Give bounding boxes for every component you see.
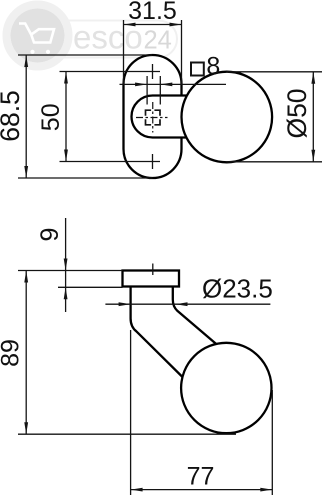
dimension 31.5 extension lines <box>123 20 125 84</box>
top screw hole cross <box>145 64 160 79</box>
spindle hole centerlines <box>136 117 168 119</box>
svg-text:24: 24 <box>144 27 172 55</box>
extension line 50 top <box>60 71 146 73</box>
side view ball <box>181 343 271 433</box>
dimension 89 line <box>25 271 27 435</box>
dimension 77 extension lines <box>130 330 132 495</box>
dimension 9 extension lines <box>18 270 123 272</box>
watermark ring <box>7 5 69 67</box>
neck projection (top view) <box>132 96 191 138</box>
svg-text:68.5: 68.5 <box>0 90 25 142</box>
svg-text:Ø50: Ø50 <box>282 88 312 138</box>
svg-text:50: 50 <box>37 103 65 131</box>
side view neck <box>131 287 218 378</box>
svg-text:31.5: 31.5 <box>128 0 177 25</box>
dimension square-8 line <box>120 83 227 85</box>
dimension 77 line <box>131 489 273 491</box>
square spindle hole 8mm <box>146 110 161 125</box>
square symbol of label <box>191 63 204 76</box>
extension line 50 bottom <box>60 161 146 163</box>
dimension 9 line <box>65 218 67 312</box>
dimension Ø50 line <box>312 72 314 162</box>
svg-text:9: 9 <box>36 228 64 242</box>
dimension Ø50 extension lines <box>227 71 323 73</box>
svg-text:Ø23.5: Ø23.5 <box>202 274 273 304</box>
side view rose plate <box>123 271 180 287</box>
watermark cart icon <box>19 24 54 43</box>
dimension square-8 extension lines <box>146 76 148 105</box>
watermark cart wheels <box>30 50 34 54</box>
dimension Ø23.5 line <box>105 303 270 305</box>
dimension 31.5 line <box>124 24 182 26</box>
dimension 50 line <box>65 72 67 162</box>
dimension 68.5 extension lines <box>18 54 152 56</box>
rosette stadium outline (top view) <box>124 55 182 178</box>
svg-text:77: 77 <box>187 463 215 491</box>
bottom screw hole cross <box>145 154 160 169</box>
ball Ø50 (top view) <box>182 72 273 163</box>
svg-text:8: 8 <box>206 53 220 81</box>
svg-text:89: 89 <box>0 339 25 367</box>
watermark disc <box>11 9 65 63</box>
plate centre tick <box>152 264 154 276</box>
dimension 89 bottom extension line <box>18 433 236 435</box>
watermark box <box>33 21 177 58</box>
dimension 68.5 line <box>25 55 27 178</box>
